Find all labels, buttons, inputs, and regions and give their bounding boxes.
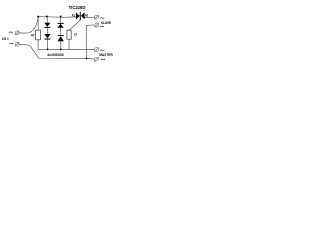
svg-text:TIC226D: TIC226D — [69, 5, 86, 10]
svg-text:47: 47 — [31, 33, 35, 37]
svg-text:SLAVE: SLAVE — [101, 20, 112, 25]
svg-text:4x1N5408: 4x1N5408 — [47, 52, 64, 57]
svg-text:10: 10 — [74, 33, 77, 37]
svg-text:A1: A1 — [72, 13, 75, 17]
svg-text:230 V: 230 V — [2, 36, 9, 41]
svg-text:A2: A2 — [85, 13, 88, 17]
svg-text:MASTER: MASTER — [99, 52, 113, 57]
